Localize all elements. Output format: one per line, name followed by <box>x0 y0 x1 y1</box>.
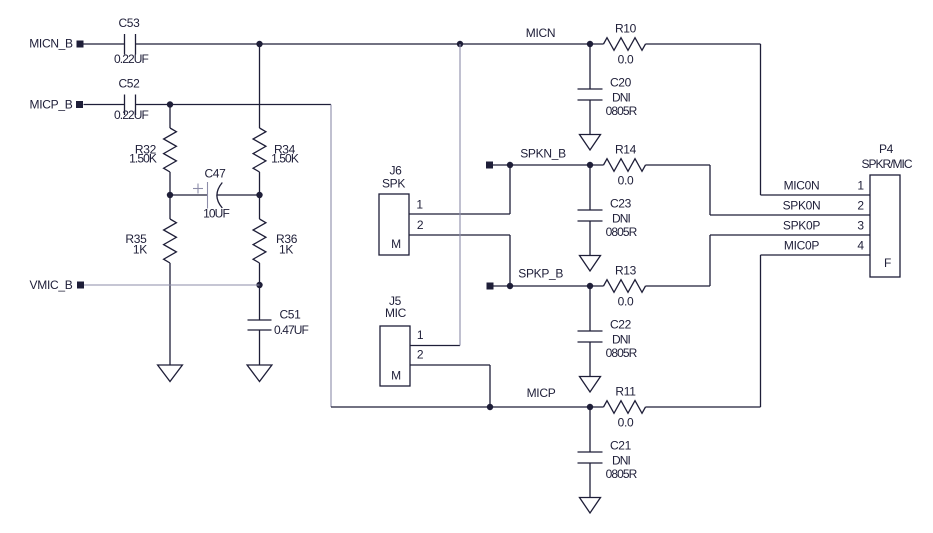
svg-text:0.47UF: 0.47UF <box>274 323 309 337</box>
svg-text:1K: 1K <box>279 243 293 257</box>
svg-text:0805R: 0805R <box>606 225 638 239</box>
svg-text:0.0: 0.0 <box>618 52 634 66</box>
svg-text:0.0: 0.0 <box>618 294 634 308</box>
svg-text:0.0: 0.0 <box>618 415 634 429</box>
svg-text:P4: P4 <box>879 142 894 156</box>
svg-text:M: M <box>391 369 401 383</box>
svg-text:2: 2 <box>417 218 424 232</box>
svg-text:R11: R11 <box>615 385 636 399</box>
svg-text:1.50K: 1.50K <box>129 151 157 165</box>
svg-text:R13: R13 <box>615 264 637 278</box>
svg-text:2: 2 <box>417 348 424 362</box>
svg-text:DNI: DNI <box>612 91 631 105</box>
svg-text:C53: C53 <box>118 16 140 30</box>
svg-text:1: 1 <box>857 179 864 193</box>
svg-text:MICN_B: MICN_B <box>29 37 73 51</box>
svg-text:MICN: MICN <box>526 26 555 40</box>
svg-text:M: M <box>391 237 401 251</box>
svg-text:MICP: MICP <box>527 386 556 400</box>
svg-text:MICP_B: MICP_B <box>30 98 73 112</box>
svg-text:SPKP_B: SPKP_B <box>518 267 563 281</box>
svg-text:10UF: 10UF <box>203 207 229 221</box>
svg-text:R10: R10 <box>615 22 637 36</box>
svg-text:DNI: DNI <box>612 212 631 226</box>
svg-text:0805R: 0805R <box>606 104 638 118</box>
svg-text:SPK: SPK <box>382 177 405 191</box>
svg-text:SPK0N: SPK0N <box>783 199 821 213</box>
svg-text:2: 2 <box>857 199 864 213</box>
svg-text:MIC: MIC <box>385 306 407 320</box>
svg-text:R14: R14 <box>615 143 637 157</box>
svg-text:1: 1 <box>416 198 423 212</box>
svg-text:DNI: DNI <box>612 454 631 468</box>
svg-text:SPKN_B: SPKN_B <box>520 147 566 161</box>
svg-text:F: F <box>884 256 891 270</box>
svg-text:MIC0N: MIC0N <box>784 179 820 193</box>
svg-text:1.50K: 1.50K <box>271 151 299 165</box>
svg-text:DNI: DNI <box>612 333 631 347</box>
svg-text:0805R: 0805R <box>606 346 638 360</box>
svg-text:C52: C52 <box>118 77 140 91</box>
svg-text:0.22UF: 0.22UF <box>114 108 149 122</box>
svg-text:C22: C22 <box>610 318 632 332</box>
svg-text:VMIC_B: VMIC_B <box>30 278 73 292</box>
svg-text:C51: C51 <box>279 308 301 322</box>
svg-text:0805R: 0805R <box>606 467 638 481</box>
svg-text:J6: J6 <box>389 164 402 178</box>
svg-text:1: 1 <box>417 328 424 342</box>
svg-text:MIC0P: MIC0P <box>784 239 819 253</box>
svg-text:C21: C21 <box>610 439 632 453</box>
svg-text:1K: 1K <box>133 243 147 257</box>
svg-text:0.0: 0.0 <box>618 173 634 187</box>
svg-text:C47: C47 <box>204 167 226 181</box>
svg-text:3: 3 <box>857 219 864 233</box>
svg-text:C23: C23 <box>610 197 632 211</box>
svg-text:C20: C20 <box>610 76 632 90</box>
svg-text:0.22UF: 0.22UF <box>114 52 149 66</box>
svg-text:SPKR/MIC: SPKR/MIC <box>861 157 912 171</box>
svg-text:4: 4 <box>857 239 864 253</box>
svg-text:SPK0P: SPK0P <box>783 219 820 233</box>
